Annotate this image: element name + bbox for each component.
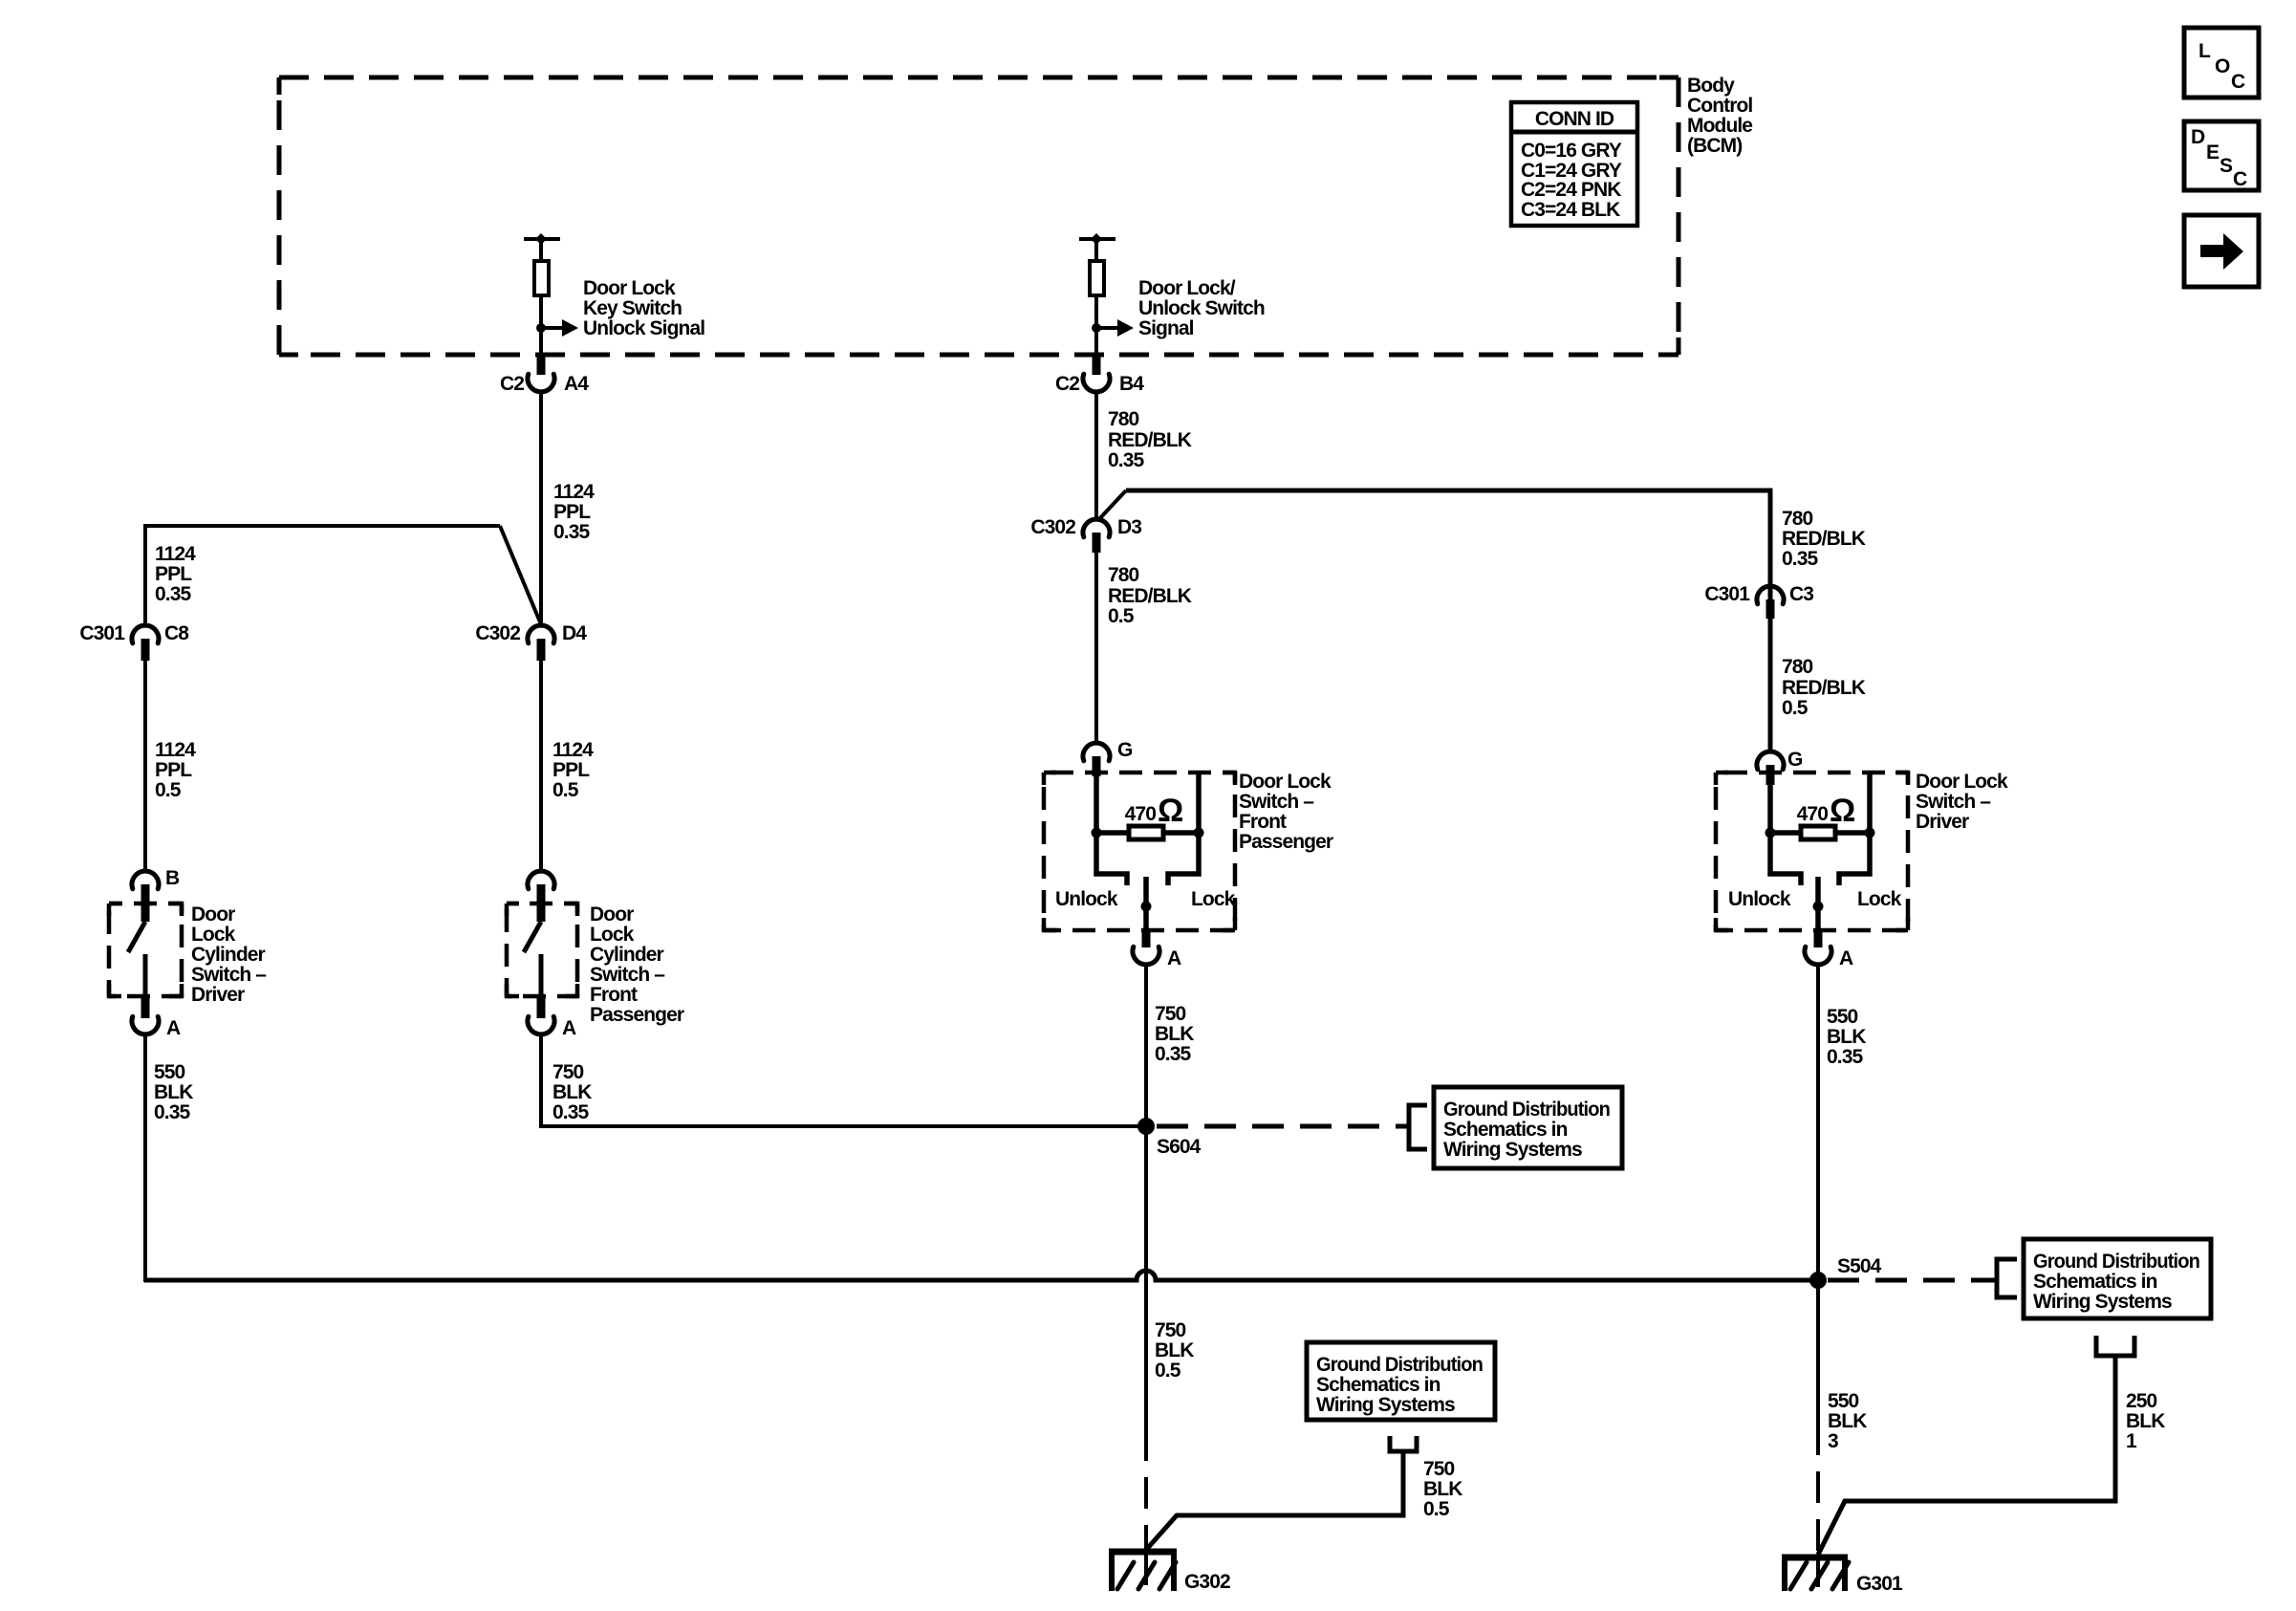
svg-text:Control: Control [1687,95,1752,117]
lock contact (front passenger) [1168,833,1199,885]
svg-text:0.35: 0.35 [155,583,191,605]
svg-text:BLK: BLK [1155,1023,1194,1045]
wire label 1124 PPL 0.35 (C8 branch) [155,543,196,605]
wire S604 down [1144,1126,1148,1429]
svg-text:A: A [166,1017,181,1039]
wire passenger cylinder A down to S604 row [539,1034,543,1128]
svg-text:D: D [2191,126,2205,148]
svg-text:Lock: Lock [191,924,236,946]
svg-text:Lock: Lock [1191,888,1236,910]
wire A to S604 [1144,965,1148,1126]
svg-text:Ground Distribution: Ground Distribution [1316,1354,1483,1376]
wire A4 to C302 D4 [539,392,543,625]
connector C302 pin D3 [1030,516,1141,553]
svg-text:Ground Distribution: Ground Distribution [2033,1251,2199,1273]
unlock switch output arrow [1096,319,1134,337]
wire driver cylinder A down [143,1034,147,1282]
svg-text:750: 750 [1155,1003,1186,1025]
junction dots (driver switch) [1765,828,1875,838]
branch wire to C301 C8 [145,526,541,625]
svg-text:0.5: 0.5 [552,779,579,801]
svg-text:BLK: BLK [1155,1339,1194,1361]
splice S604 [1137,1118,1202,1158]
driver switch label [1916,771,2008,833]
wire label 780 RED/BLK 0.35 (B4) [1108,408,1192,471]
svg-text:550: 550 [154,1061,185,1083]
wire label 750 BLK 0.5 (to G302) [1423,1458,1462,1520]
switch pole (driver) [1813,877,1824,930]
door lock switch driver dashed box [1716,773,1908,930]
pin G (driver door lock switch) [1757,749,1803,785]
svg-text:Cylinder: Cylinder [590,944,664,966]
svg-text:RED/BLK: RED/BLK [1782,677,1866,699]
Body Control Module (BCM) dashed box [279,77,1679,355]
ground distribution schematics box (S504) [2024,1239,2211,1318]
door lock cylinder switch - front passenger dashed box [507,903,577,996]
svg-text:RED/BLK: RED/BLK [1782,528,1866,550]
svg-text:Passenger: Passenger [590,1004,684,1026]
svg-text:S: S [2220,155,2233,177]
svg-text:G: G [1787,749,1803,771]
svg-text:CONN ID: CONN ID [1535,108,1614,130]
svg-text:PPL: PPL [552,759,590,781]
passenger cylinder switch label [590,903,684,1026]
switch pole (front passenger) [1141,877,1152,930]
dashed wire S504 to ground distribution ref [1828,1278,1997,1283]
svg-text:1: 1 [2126,1430,2137,1452]
key switch output arrow [541,319,578,337]
svg-text:0.5: 0.5 [155,779,182,801]
svg-text:C2=24 PNK: C2=24 PNK [1521,179,1621,201]
svg-text:750: 750 [1155,1319,1186,1341]
wire G302 box to ground [1146,1451,1403,1550]
resistor label 470 ohm (front passenger) [1125,793,1184,829]
pin A (front passenger door lock switch) [1133,928,1181,969]
pin A (driver door lock switch) [1805,928,1853,969]
bracket connector (S504 ref) [1997,1259,2017,1297]
svg-text:RED/BLK: RED/BLK [1108,429,1192,451]
svg-text:Wiring Systems: Wiring Systems [1443,1139,1582,1161]
svg-text:0.5: 0.5 [1423,1498,1450,1520]
svg-text:Door: Door [191,903,235,925]
wire C8 down [143,661,147,871]
svg-text:0.35: 0.35 [553,521,590,543]
svg-text:Wiring Systems: Wiring Systems [1316,1394,1455,1416]
svg-text:Ground Distribution: Ground Distribution [1443,1099,1610,1121]
svg-text:BLK: BLK [2126,1410,2165,1432]
svg-text:Door Lock/: Door Lock/ [1138,277,1236,299]
svg-text:Body: Body [1687,75,1735,97]
svg-text:C301: C301 [1704,583,1750,605]
svg-text:Switch –: Switch – [590,964,665,986]
svg-text:Cylinder: Cylinder [191,944,266,966]
svg-text:A: A [1839,947,1853,969]
svg-text:C0=16 GRY: C0=16 GRY [1521,140,1622,162]
svg-text:1124: 1124 [553,481,595,503]
pin A (passenger cylinder switch) [528,996,576,1039]
key switch signal label [583,277,704,339]
unlock contact (driver) [1770,833,1801,885]
svg-text:Lock: Lock [590,924,635,946]
svg-text:550: 550 [1828,1390,1859,1412]
unlock/lock labels (driver) [1728,888,1902,910]
svg-text:3: 3 [1828,1430,1838,1452]
door lock/unlock switch input (in BCM) [1079,233,1116,355]
svg-text:750: 750 [552,1061,584,1083]
ground G301 [1782,1555,1903,1595]
wire label 1124 PPL 0.5 (driver) [155,739,196,801]
wire S504 box to ground [1818,1356,2115,1555]
svg-text:Lock: Lock [1857,888,1902,910]
svg-text:C8: C8 [164,622,189,644]
wire label 750 BLK 0.35 (passenger cylinder) [552,1061,592,1123]
svg-text:Front: Front [590,984,638,1006]
svg-text:780: 780 [1782,508,1813,530]
svg-text:1124: 1124 [552,739,594,761]
svg-text:Door Lock: Door Lock [1916,771,2008,793]
svg-text:Front: Front [1239,811,1287,833]
connector C302 pin D4 [475,622,587,661]
svg-text:1124: 1124 [155,739,196,761]
wire label 550 BLK 0.35 (driver switch) [1827,1006,1866,1068]
bracket connector (G302 box) [1390,1436,1417,1451]
BCM label "Body Control Module (BCM)" [1687,75,1752,157]
DESC icon box [2184,121,2259,190]
wire label 550 BLK 3 [1828,1390,1867,1452]
svg-text:1124: 1124 [155,543,196,565]
svg-text:Door: Door [590,903,634,925]
wire label 780 RED/BLK 0.35 (branch) [1782,508,1866,570]
svg-text:Schematics in: Schematics in [1443,1119,1568,1141]
svg-text:0.35: 0.35 [1827,1046,1863,1068]
svg-text:C2: C2 [1055,373,1079,395]
svg-text:G301: G301 [1856,1573,1903,1595]
svg-text:S504: S504 [1837,1255,1882,1277]
svg-text:C302: C302 [1030,516,1075,538]
passenger cylinder switch contact [539,954,544,996]
svg-text:D4: D4 [562,622,587,644]
svg-text:PPL: PPL [155,563,192,585]
CONN ID table [1511,102,1637,226]
pin B (passenger cylinder switch) [528,871,554,922]
svg-text:470: 470 [1797,803,1829,825]
passenger cylinder switch blade [524,922,541,952]
front passenger switch internal wiring [1096,773,1199,833]
unlock contact (front passenger) [1096,833,1127,885]
long ground wire with hop [144,1271,1818,1280]
svg-text:O: O [2215,55,2230,77]
svg-text:Switch –: Switch – [1916,791,1991,813]
wire label 750 BLK 0.5 (S604 down) [1155,1319,1194,1382]
svg-text:550: 550 [1827,1006,1858,1028]
svg-text:0.35: 0.35 [1108,449,1144,471]
connector C2 pin A4 [500,353,589,395]
svg-text:Unlock Switch: Unlock Switch [1138,297,1265,319]
wire label 780 RED/BLK 0.5 (C3) [1782,656,1866,719]
svg-text:Schematics in: Schematics in [2033,1271,2157,1293]
svg-text:G: G [1117,739,1133,761]
dashed wire S604 to ground distribution ref [1157,1124,1409,1129]
svg-text:BLK: BLK [154,1081,193,1103]
svg-text:Module: Module [1687,115,1752,137]
svg-text:B4: B4 [1119,373,1144,395]
svg-text:0.35: 0.35 [1782,548,1818,570]
svg-text:A4: A4 [564,373,589,395]
resistor 470 ohm (front passenger) [1129,826,1163,839]
svg-text:B: B [165,867,180,889]
LOC icon box [2184,28,2259,98]
svg-text:0.5: 0.5 [1108,605,1135,627]
svg-text:Key Switch: Key Switch [583,297,682,319]
svg-text:780: 780 [1782,656,1813,678]
svg-text:0.35: 0.35 [1155,1043,1191,1065]
driver switch internal wiring [1770,773,1870,833]
arrow icon box [2184,215,2259,287]
svg-text:Switch –: Switch – [1239,791,1314,813]
connector C301 pin C8 [79,622,189,661]
svg-text:Ω: Ω [1830,793,1855,829]
wire label 550 BLK 0.35 (driver cylinder) [154,1061,193,1123]
svg-text:Switch –: Switch – [191,964,267,986]
pin A (driver cylinder switch) [132,996,181,1039]
svg-text:C302: C302 [475,622,520,644]
wire S504 down [1816,1280,1820,1424]
unlock switch signal label [1138,277,1265,339]
dashed wire to G302 [1144,1429,1148,1554]
svg-text:PPL: PPL [553,501,591,523]
svg-text:0.5: 0.5 [1782,697,1809,719]
svg-text:D3: D3 [1117,516,1141,538]
door lock cylinder switch - driver dashed box [109,903,182,996]
svg-text:0.35: 0.35 [154,1101,190,1123]
svg-text:Driver: Driver [1916,811,1969,833]
svg-text:Passenger: Passenger [1239,831,1333,853]
wire label 1124 PPL 0.35 (A4) [553,481,595,543]
branch wire D3 to C301 C3 [1097,490,1770,586]
svg-text:PPL: PPL [155,759,192,781]
door lock key switch (in BCM) [524,233,560,355]
wire label 750 BLK 0.35 (front passenger switch) [1155,1003,1194,1065]
svg-text:BLK: BLK [552,1081,592,1103]
svg-text:Unlock Signal: Unlock Signal [583,317,704,339]
svg-text:780: 780 [1108,564,1139,586]
svg-text:750: 750 [1423,1458,1455,1480]
door lock switch front passenger dashed box [1044,773,1235,930]
svg-text:780: 780 [1108,408,1139,430]
wire D3 to G (front passenger switch) [1094,553,1098,743]
svg-text:E: E [2206,142,2220,163]
svg-text:Unlock: Unlock [1055,888,1118,910]
svg-text:Door Lock: Door Lock [583,277,676,299]
wire label 1124 PPL 0.5 (passenger) [552,739,594,801]
svg-text:C3=24 BLK: C3=24 BLK [1521,199,1620,221]
svg-text:C301: C301 [79,622,125,644]
resistor 470 ohm (driver) [1801,826,1835,839]
bracket connector (S604 ref) [1409,1105,1427,1149]
lock contact (driver) [1839,833,1870,885]
svg-text:C: C [2233,168,2247,190]
svg-text:S604: S604 [1157,1136,1202,1158]
junction dots (front passenger switch) [1092,828,1204,838]
svg-text:L: L [2199,40,2211,62]
bracket connector (S504 box bottom) [2096,1336,2134,1356]
svg-text:A: A [562,1017,576,1039]
svg-text:0.35: 0.35 [552,1101,589,1123]
svg-text:A: A [1167,947,1181,969]
wire B4 to C302 D3 [1094,392,1098,519]
resistor label 470 ohm (driver) [1797,793,1856,829]
connector C2 pin B4 [1055,353,1144,395]
ground distribution schematics box (S604) [1434,1087,1622,1168]
svg-text:Unlock: Unlock [1728,888,1791,910]
connector C301 pin C3 [1704,583,1813,619]
driver cylinder switch blade [128,922,145,952]
svg-text:Wiring Systems: Wiring Systems [2033,1291,2172,1313]
svg-text:Driver: Driver [191,984,245,1006]
front passenger switch label [1239,771,1333,853]
driver cylinder switch contact [143,954,148,996]
wire passenger cylinder to S604 [539,1124,1146,1128]
wire D4 down [539,661,543,871]
svg-text:G302: G302 [1184,1571,1230,1593]
svg-text:C: C [2231,71,2245,93]
svg-text:BLK: BLK [1828,1410,1867,1432]
dashed wire to G301 [1816,1424,1820,1557]
wire C3 to G (driver switch) [1768,586,1773,751]
unlock/lock labels (front passenger) [1055,888,1236,910]
ground distribution schematics box (G302) [1307,1342,1495,1420]
splice S504 [1809,1255,1882,1289]
svg-text:RED/BLK: RED/BLK [1108,585,1192,607]
wire A to S504 [1816,965,1820,1280]
svg-text:Door Lock: Door Lock [1239,771,1332,793]
svg-text:Ω: Ω [1158,793,1183,829]
svg-text:BLK: BLK [1423,1478,1462,1500]
svg-text:Schematics in: Schematics in [1316,1374,1440,1396]
svg-text:C3: C3 [1789,583,1813,605]
wire label 780 RED/BLK 0.5 (D3) [1108,564,1192,627]
svg-text:250: 250 [2126,1390,2157,1412]
svg-text:C2: C2 [500,373,524,395]
pin G (front passenger door lock switch) [1083,739,1133,776]
driver cylinder switch label [191,903,267,1006]
pin B (driver cylinder switch) [132,867,180,922]
svg-text:BLK: BLK [1827,1026,1866,1048]
svg-text:0.5: 0.5 [1155,1360,1181,1382]
ground G302 [1109,1550,1230,1593]
svg-text:Signal: Signal [1138,317,1194,339]
svg-text:(BCM): (BCM) [1687,135,1742,157]
wire label 250 BLK 1 [2126,1390,2165,1452]
svg-text:470: 470 [1125,803,1157,825]
